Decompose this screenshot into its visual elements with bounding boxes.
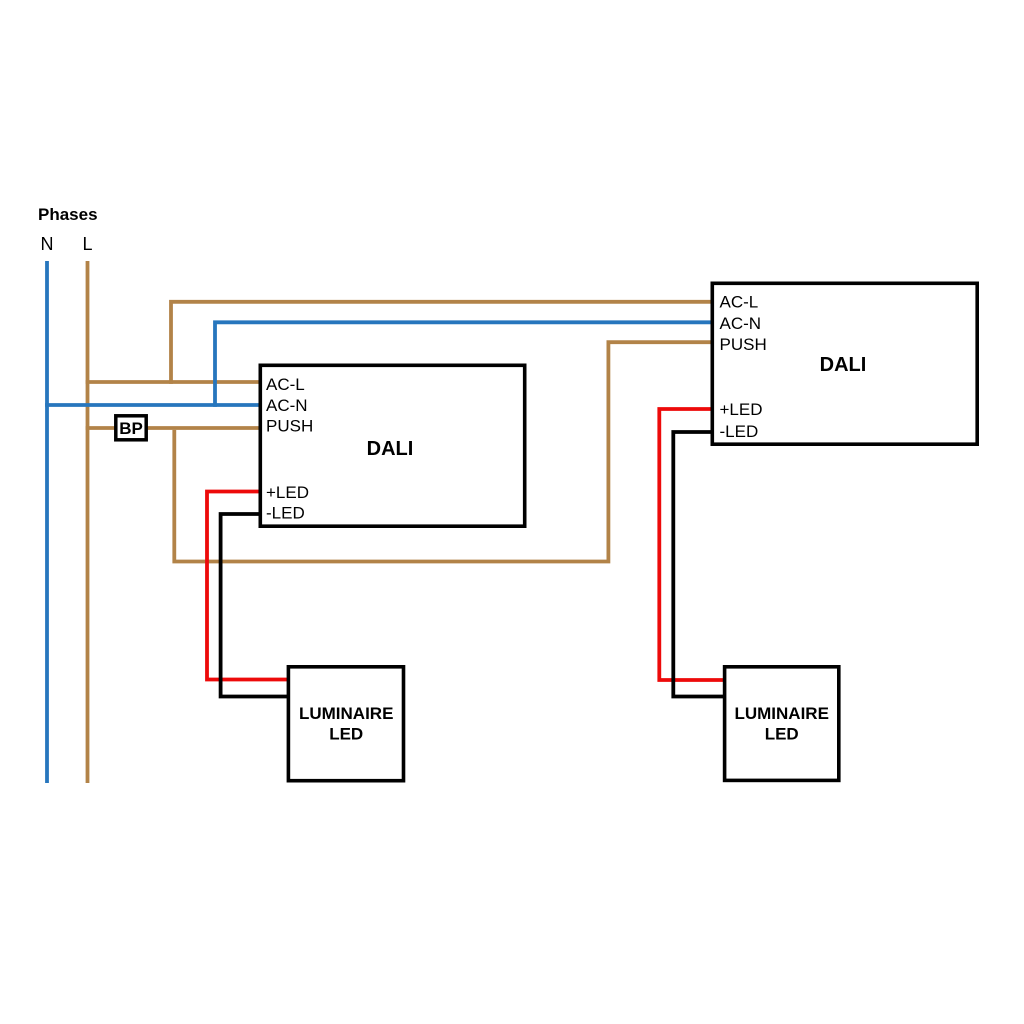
luminaire LUM1 box (288, 667, 403, 781)
wire U2 +LED to LUM2 (659, 409, 726, 680)
wire PUSH branch to U2 (174, 342, 714, 561)
wire L to U1 AC-L (86, 380, 262, 384)
svg-text:BP: BP (119, 419, 143, 438)
luminaire LUM2 box (725, 667, 839, 781)
svg-text:-LED: -LED (720, 422, 759, 441)
LED driver U2 box (712, 283, 977, 444)
svg-text:+LED: +LED (720, 400, 763, 419)
wire AC-L branch to U2 (171, 302, 714, 384)
svg-text:L: L (82, 234, 92, 254)
svg-text:LED: LED (329, 725, 363, 744)
svg-text:AC-N: AC-N (720, 314, 762, 333)
svg-text:PUSH: PUSH (720, 335, 767, 354)
pushbutton BP (116, 416, 146, 440)
svg-text:DALI: DALI (367, 438, 414, 460)
svg-text:LUMINAIRE: LUMINAIRE (299, 704, 393, 723)
svg-text:DALI: DALI (820, 354, 867, 376)
svg-text:N: N (41, 234, 54, 254)
wire U1 -LED to LUM1 (221, 514, 288, 697)
wire L phase vertical (86, 261, 90, 783)
svg-text:PUSH: PUSH (266, 417, 313, 436)
svg-text:LED: LED (765, 725, 799, 744)
svg-text:AC-L: AC-L (266, 375, 305, 394)
svg-text:Phases: Phases (38, 205, 98, 224)
LED driver U1 box (260, 365, 524, 526)
wire N to U1 AC-N (45, 403, 262, 407)
wire U1 +LED to LUM1 (207, 492, 288, 680)
wire L to BP (86, 426, 116, 430)
svg-text:AC-N: AC-N (266, 396, 308, 415)
svg-text:+LED: +LED (266, 483, 309, 502)
wire AC-N branch to U2 (215, 322, 714, 407)
wire BP to U1 PUSH (146, 426, 262, 430)
wire N phase vertical (45, 261, 49, 783)
wire U2 -LED to LUM2 (673, 432, 726, 697)
svg-text:AC-L: AC-L (720, 293, 759, 312)
svg-text:-LED: -LED (266, 504, 305, 523)
svg-text:LUMINAIRE: LUMINAIRE (734, 704, 828, 723)
